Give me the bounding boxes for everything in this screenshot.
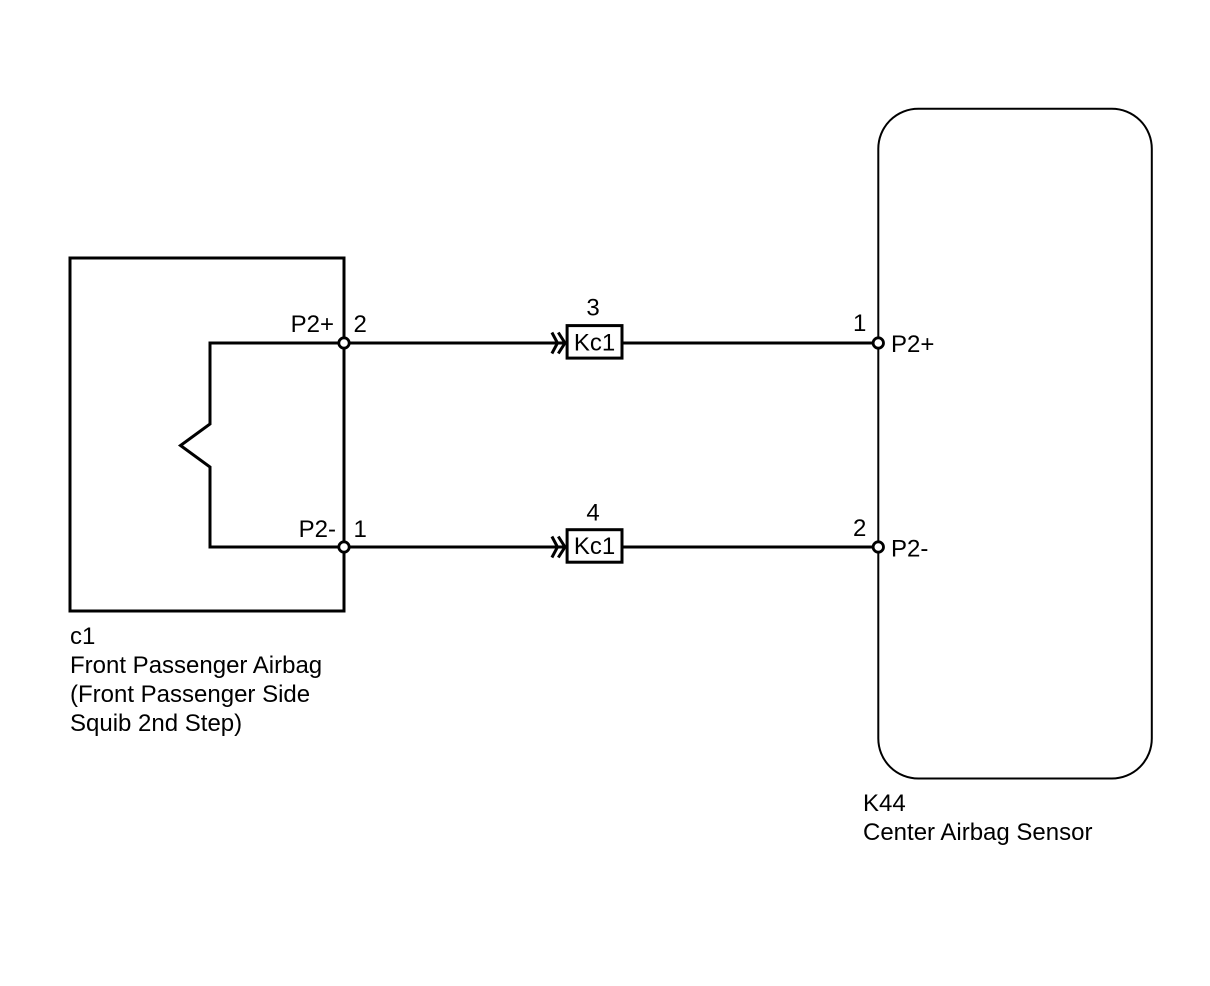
svg-text:K44: K44 <box>863 790 906 817</box>
svg-text:Kc1: Kc1 <box>574 329 615 356</box>
svg-text:2: 2 <box>354 311 367 338</box>
svg-text:2: 2 <box>853 515 866 542</box>
svg-text:3: 3 <box>586 295 599 322</box>
svg-text:Front Passenger Airbag: Front Passenger Airbag <box>70 652 322 679</box>
svg-text:P2-: P2- <box>891 536 928 563</box>
svg-text:1: 1 <box>853 310 866 337</box>
svg-text:Kc1: Kc1 <box>574 533 615 560</box>
svg-text:Squib 2nd Step): Squib 2nd Step) <box>70 710 242 737</box>
svg-text:(Front Passenger Side: (Front Passenger Side <box>70 681 310 708</box>
svg-text:P2-: P2- <box>299 516 336 543</box>
svg-text:1: 1 <box>354 516 367 543</box>
svg-text:Center Airbag Sensor: Center Airbag Sensor <box>863 819 1092 846</box>
svg-text:P2+: P2+ <box>891 331 934 358</box>
svg-text:4: 4 <box>586 500 599 527</box>
svg-text:P2+: P2+ <box>291 311 334 338</box>
svg-text:c1: c1 <box>70 623 95 650</box>
